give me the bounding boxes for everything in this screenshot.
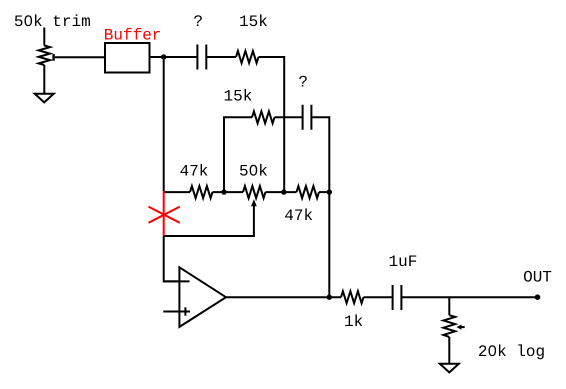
wire row1 right + corner down	[259, 57, 285, 192]
wire ladder 2	[266, 191, 297, 193]
red X mark stroke 2	[149, 207, 180, 223]
zero-dot mask 20k log	[491, 348, 495, 353]
op-amp U2 triangle	[179, 267, 226, 327]
node wire buffer output	[150, 56, 198, 58]
resistor 50k pot zigzag	[243, 186, 266, 198]
junction dot buffer output	[161, 54, 166, 59]
wire 20k branch top	[448, 297, 450, 315]
wire 1k to C3	[364, 296, 393, 298]
wire C3 to OUT	[401, 296, 537, 298]
wiper arrowhead 50k	[251, 199, 257, 206]
wire ladder 3	[319, 191, 329, 193]
wire left vertical lower	[164, 236, 180, 281]
svg-text:47k: 47k	[284, 207, 313, 225]
svg-text:1k: 1k	[344, 313, 363, 331]
ground GND2	[440, 364, 459, 373]
resistor 50k trim (vertical zigzag)	[39, 46, 50, 66]
resistor 1k zigzag	[341, 291, 364, 303]
svg-text:50k trim: 50k trim	[14, 13, 91, 31]
op-amp plus input stub	[163, 311, 190, 313]
wire left vertical from junction	[163, 57, 165, 191]
wire ladder 1	[213, 191, 244, 193]
junction dot ladder C	[327, 189, 332, 194]
svg-text:15k: 15k	[239, 13, 268, 31]
svg-text:15k: 15k	[224, 87, 253, 105]
resistor 47k right zigzag	[297, 186, 320, 198]
wire row2 right corner down	[311, 117, 329, 192]
wire C1 to R 15k	[206, 56, 236, 58]
wire 20k bottom	[448, 337, 450, 364]
svg-text:47k: 47k	[180, 162, 209, 180]
junction dot ladder A	[221, 189, 226, 194]
wire row2 mid	[275, 116, 303, 118]
svg-text:1uF: 1uF	[389, 253, 418, 271]
node OUT terminal dot	[535, 294, 541, 300]
wire output vertical V4	[328, 192, 330, 297]
junction dot output	[327, 295, 332, 300]
svg-text:OUT: OUT	[523, 268, 552, 286]
svg-text:?: ?	[193, 13, 203, 31]
capacitor C3 1uF plates	[393, 285, 402, 310]
wire cut segment (red)	[163, 191, 165, 236]
svg-text:20k log: 20k log	[478, 343, 545, 361]
ground GND1	[35, 94, 54, 103]
wiper bar pot1	[52, 54, 54, 61]
resistor 15k row1 zigzag	[236, 51, 259, 63]
zero-dot mask 50k	[252, 168, 256, 173]
wire pot1 top	[43, 28, 45, 46]
resistor 15k row2 zigzag	[252, 111, 275, 123]
junction dot ladder B	[281, 189, 286, 194]
wiper arrow 20k wire	[460, 326, 465, 328]
svg-text:Buffer: Buffer	[104, 27, 162, 45]
red X mark stroke 1	[149, 207, 180, 223]
wiper arrow pot1 wire	[55, 56, 105, 58]
capacitor C1 ? plates	[197, 45, 206, 70]
wire op-amp output	[226, 296, 341, 298]
wire ladder left	[164, 191, 190, 193]
wire pot1 bottom	[43, 65, 45, 94]
capacitor C2 ? plates	[303, 105, 312, 130]
zero-dot mask 50k trim	[27, 18, 31, 23]
resistor 20k log zigzag	[443, 315, 455, 337]
wiper arrowhead 20k	[457, 325, 462, 330]
op-amp plus sign vertical	[184, 307, 186, 315]
wire row2 left corner	[224, 117, 252, 192]
svg-text:?: ?	[298, 73, 308, 91]
op-amp minus input wire	[164, 280, 190, 282]
wire 50k wiper return	[164, 206, 254, 236]
resistor 47k left zigzag	[190, 186, 213, 198]
buffer box U1	[105, 43, 150, 73]
